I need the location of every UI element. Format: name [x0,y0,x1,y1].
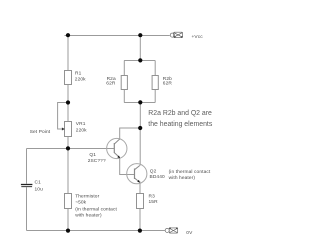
wire collector stem [139,103,141,129]
wire bottom rail [27,230,165,232]
node bottom-left [66,229,70,233]
transistor Q2 [127,164,165,184]
node wiper tap [66,100,70,104]
svg-text:(in thermal contact: (in thermal contact [169,169,211,175]
resistor R3 [137,193,159,208]
wire Q2 collector [139,128,141,166]
svg-text:R2a R2b and Q2 are: R2a R2b and Q2 are [148,110,212,117]
node top-mid [138,33,142,37]
junction node dots [66,33,142,233]
connector +Vcc [170,32,182,37]
svg-text:62R: 62R [106,81,116,87]
wire R2 top [124,60,155,62]
svg-text:C1: C1 [35,180,42,186]
svg-text:Set Point: Set Point [30,129,51,135]
svg-text:BD440: BD440 [150,174,165,180]
svg-text:R3: R3 [149,193,156,199]
svg-text:Q2: Q2 [150,168,157,174]
svg-text:R1: R1 [75,70,82,76]
svg-text:VR1: VR1 [76,121,86,127]
svg-text:Thermistor: Thermistor [75,194,99,200]
node collector split [138,126,142,130]
svg-text:10u: 10u [35,186,44,192]
wire Q2 emitter [139,182,141,194]
resistor R2a [106,76,127,90]
svg-text:(in thermal contact: (in thermal contact [75,206,117,212]
svg-text:220k: 220k [75,77,86,83]
svg-text:the heating elements: the heating elements [148,121,213,128]
potentiometer VR1 [62,121,87,136]
wire R2 stem [139,36,141,61]
node R2 top [138,58,142,62]
resistor R2b [152,76,172,90]
wire C1 branch [26,149,28,231]
transistor Q1 [88,138,127,164]
svg-text:220k: 220k [76,128,87,134]
svg-text:Q1: Q1 [89,152,96,158]
svg-text:with heater): with heater) [169,175,196,181]
wire R2 bottom [124,102,155,104]
svg-text:15R: 15R [149,199,159,205]
connector 0V [165,228,178,233]
svg-text:2SC???: 2SC??? [88,158,106,164]
wire R3 bottom [139,209,141,231]
wire top rail [65,35,170,37]
node top-left [66,33,70,37]
capacitor C1 [21,180,43,193]
node bottom-mid [138,229,142,233]
svg-text:+Vcc: +Vcc [192,34,204,40]
wire R2a vertical [123,61,125,103]
wire Q1 emitter to Q2 base [120,158,135,175]
wire base rail [27,148,115,150]
svg-text:~50k: ~50k [75,200,86,206]
thermistor TH1 [65,194,118,219]
wire R2b vertical [154,61,156,103]
svg-text:0V: 0V [186,230,193,236]
wire left branch vertical [67,36,69,231]
wire VR1 wiper loop [58,103,68,130]
wire Q1 collector [120,128,141,139]
svg-text:with heater): with heater) [75,213,102,219]
node base [66,146,70,150]
svg-text:62R: 62R [163,81,173,87]
node R2 bottom [138,100,142,104]
resistor R1 [65,70,87,84]
